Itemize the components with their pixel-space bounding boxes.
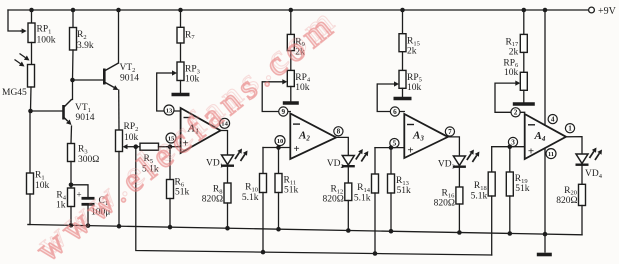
wire signal resistor R18 column bbox=[491, 147, 493, 172]
transistor VT1 bbox=[64, 100, 72, 126]
resistor R6 body bbox=[167, 180, 174, 199]
node R3/R4/C1 junction bbox=[69, 183, 74, 188]
svg-text:10k: 10k bbox=[504, 68, 519, 78]
svg-text:8: 8 bbox=[337, 128, 341, 136]
op-amp A3 bbox=[404, 114, 448, 158]
LED VD1 bbox=[221, 149, 248, 166]
svg-text:+: + bbox=[528, 146, 534, 158]
svg-text:5.1k: 5.1k bbox=[471, 192, 488, 202]
svg-text:+: + bbox=[293, 143, 299, 155]
node R-top rail junction stage 2 bbox=[289, 8, 294, 13]
ground RP6 bbox=[513, 102, 535, 105]
potentiometer RP2 body bbox=[116, 130, 136, 152]
node R-top rail junction stage 3 bbox=[400, 8, 405, 13]
wire rail to RP1 bbox=[31, 10, 33, 23]
op-amp A4 bbox=[525, 114, 566, 159]
op-amp A1 bbox=[181, 108, 221, 153]
svg-text:6: 6 bbox=[393, 108, 397, 116]
node R11 junction bbox=[276, 145, 281, 150]
node VT2 collector rail junction bbox=[116, 8, 121, 13]
svg-text:R10: R10 bbox=[245, 183, 258, 194]
svg-text:R18: R18 bbox=[474, 181, 487, 192]
svg-text:100k: 100k bbox=[37, 36, 56, 46]
wire R16 to ground rail bbox=[458, 204, 460, 233]
potentiometer RP1 body bbox=[28, 23, 35, 43]
node signal junction bbox=[134, 144, 139, 149]
node R19 ground junction bbox=[508, 231, 513, 236]
wire R10 to signal bus bbox=[262, 193, 264, 253]
node R10 signal bus junction bbox=[261, 250, 266, 255]
node RP2 ground junction bbox=[117, 224, 122, 229]
ground main bbox=[537, 253, 552, 257]
svg-text:9: 9 bbox=[282, 108, 286, 116]
svg-text:4: 4 bbox=[551, 116, 555, 124]
ground RP3 bbox=[172, 93, 190, 96]
wire base node to R1 bbox=[29, 111, 31, 173]
svg-text:R1: R1 bbox=[35, 171, 45, 182]
svg-text:R3: R3 bbox=[78, 145, 88, 156]
svg-text:R7: R7 bbox=[185, 30, 195, 41]
wire signal bus rail bbox=[136, 147, 492, 255]
svg-text:10k: 10k bbox=[407, 83, 422, 93]
potentiometer RP4 body bbox=[262, 70, 294, 86]
wire +9V top supply rail bbox=[8, 9, 589, 11]
wire R2 top bbox=[72, 10, 74, 28]
resistor R15 body bbox=[399, 34, 406, 52]
wire VT1 base bbox=[31, 110, 63, 112]
node R16 ground junction bbox=[457, 230, 462, 235]
wire R8 to ground rail bbox=[227, 203, 229, 228]
svg-text:5.1k: 5.1k bbox=[242, 193, 259, 203]
svg-text:820Ω: 820Ω bbox=[202, 195, 223, 205]
node R13 junction bbox=[389, 145, 394, 150]
svg-text:2k: 2k bbox=[407, 47, 417, 57]
svg-text:10: 10 bbox=[277, 138, 284, 145]
svg-text:VT2: VT2 bbox=[120, 63, 136, 74]
wire top resistor to pot stage 2 bbox=[290, 51, 292, 71]
wire VD4 to ballast resistor bbox=[581, 166, 583, 184]
node A4 V+ rail junction bbox=[543, 8, 548, 13]
svg-text:VD1: VD1 bbox=[206, 159, 223, 170]
resistor R7 body bbox=[177, 27, 184, 43]
node R12 ground junction bbox=[346, 228, 351, 233]
svg-text:2: 2 bbox=[514, 109, 518, 117]
svg-text:10k: 10k bbox=[295, 83, 310, 93]
pin 1 output A4 bbox=[565, 124, 574, 133]
wire C1 to ground rail bbox=[87, 206, 89, 226]
wire output A1 to VD1 bbox=[221, 131, 228, 156]
op-amp A2 bbox=[290, 114, 336, 160]
wire pot to ground stage 4 bbox=[523, 90, 525, 104]
resistor R11 body bbox=[275, 174, 282, 193]
pin 14 output A1 bbox=[220, 118, 230, 128]
svg-text:RP1: RP1 bbox=[37, 25, 52, 36]
node R8 ground junction bbox=[225, 226, 230, 231]
watermark www.elecfans.com bbox=[29, 2, 341, 264]
resistor R5 body bbox=[140, 143, 159, 150]
capacitor C1 electrolytic bbox=[76, 190, 94, 205]
node R19 junction bbox=[508, 144, 513, 149]
svg-text:5.1k: 5.1k bbox=[354, 194, 371, 204]
wire R19 to ground rail bbox=[509, 196, 511, 234]
wire R12 to ground rail bbox=[347, 201, 349, 231]
svg-text:51k: 51k bbox=[515, 184, 530, 194]
node R11 ground junction bbox=[276, 227, 281, 232]
resistor R14 body bbox=[372, 174, 379, 193]
svg-text:10k: 10k bbox=[185, 75, 200, 85]
wiper arrow RP1 bbox=[20, 28, 27, 33]
wire rail to top resistor stage 1 bbox=[180, 10, 182, 27]
svg-text:9014: 9014 bbox=[76, 113, 95, 123]
svg-text:10k: 10k bbox=[35, 181, 50, 191]
node VT1 base junction bbox=[28, 109, 33, 114]
wire R18 to signal bus bbox=[491, 196, 493, 255]
wire R11 to ground rail bbox=[278, 193, 280, 230]
wire R6 column bbox=[169, 147, 171, 180]
LED VD3 bbox=[453, 150, 480, 167]
resistor R12 body bbox=[345, 183, 352, 201]
potentiometer RP6 body bbox=[495, 72, 527, 90]
node R14 signal bus junction bbox=[373, 251, 378, 256]
wire R19 column bbox=[509, 147, 511, 172]
resistor R9 body bbox=[287, 34, 294, 50]
svg-text:11: 11 bbox=[548, 151, 554, 158]
node R4 ground junction bbox=[69, 223, 74, 228]
wire R11 column bbox=[278, 148, 280, 174]
potentiometer RP5 body bbox=[377, 70, 406, 88]
wire output A2 to VD2 bbox=[336, 137, 348, 155]
resistor R13 body bbox=[388, 174, 395, 193]
pin 8 output A2 bbox=[334, 127, 343, 136]
resistor R2 body bbox=[70, 28, 77, 51]
node VT1 collector / VT2 base bbox=[70, 78, 75, 83]
pin 15 non-inverting input A1 bbox=[166, 133, 176, 143]
svg-text:820Ω: 820Ω bbox=[434, 199, 455, 209]
wire pot to ground stage 1 bbox=[180, 81, 182, 95]
svg-text:820Ω: 820Ω bbox=[556, 196, 577, 206]
wire output A3 to VD3 bbox=[448, 137, 460, 156]
pin 11 GND A4 bbox=[546, 149, 556, 159]
wire VD1 to ballast resistor bbox=[227, 167, 229, 183]
wire rail to top resistor stage 4 bbox=[523, 10, 525, 34]
wire non-inverting input A4 bbox=[492, 146, 525, 148]
svg-text:VD4: VD4 bbox=[585, 169, 603, 180]
wire ground bus rail bbox=[28, 225, 582, 235]
wire RP1 wiper to +9V rail bbox=[8, 10, 22, 31]
resistor R16 body bbox=[456, 187, 463, 204]
pin 13 inverting input A1 bbox=[164, 105, 174, 115]
svg-text:51k: 51k bbox=[175, 188, 190, 198]
wire rail to top resistor stage 3 bbox=[402, 10, 404, 34]
node R6 junction bbox=[168, 144, 173, 149]
svg-text:51k: 51k bbox=[284, 186, 299, 196]
svg-text:VD2: VD2 bbox=[327, 159, 344, 170]
resistor R18 body bbox=[488, 172, 495, 196]
pin 9 inverting input A2 bbox=[279, 107, 288, 116]
wire signal resistor R10 column bbox=[262, 148, 264, 174]
pin 7 output A3 bbox=[445, 127, 454, 136]
svg-text:+9V: +9V bbox=[598, 6, 617, 17]
wire rail to top resistor stage 2 bbox=[290, 10, 292, 34]
node R-top rail junction stage 1 bbox=[178, 8, 183, 13]
svg-text:820Ω: 820Ω bbox=[322, 195, 343, 205]
svg-text:9014: 9014 bbox=[120, 74, 139, 84]
resistor R20 body bbox=[579, 184, 586, 205]
wire signal resistor R14 column bbox=[374, 148, 376, 174]
node R-top rail junction stage 4 bbox=[522, 8, 527, 13]
wire VD2 to ballast resistor bbox=[347, 167, 349, 183]
resistor R19 body bbox=[506, 172, 513, 196]
wire R14 to signal bus bbox=[374, 193, 376, 254]
photoresistor MG45 body bbox=[28, 65, 35, 88]
LED VD2 bbox=[342, 149, 369, 166]
wire A4 V+ pin 4 from rail bbox=[544, 10, 546, 125]
wire VT2 emitter to RP2 bbox=[118, 90, 120, 130]
wire non-inverting input A2 bbox=[263, 147, 290, 149]
wire R20 to ground rail corner bbox=[581, 206, 583, 235]
svg-text:300Ω: 300Ω bbox=[78, 155, 99, 165]
wire VT2 base bbox=[73, 79, 104, 81]
pin 5 non-inverting input A3 bbox=[390, 139, 399, 148]
wire RP2 wiper junction to R5 bbox=[136, 146, 140, 148]
svg-text:A4: A4 bbox=[534, 130, 546, 143]
LED VD4 bbox=[576, 148, 603, 165]
wire top resistor to pot stage 4 bbox=[523, 52, 525, 72]
svg-text:A2: A2 bbox=[298, 130, 310, 143]
node R13 ground junction bbox=[389, 229, 394, 234]
wire R5 to non-inverting input A1 bbox=[159, 146, 181, 148]
svg-text:A3: A3 bbox=[412, 130, 424, 143]
wire RP1 to MG45 bbox=[31, 43, 33, 65]
svg-text:VD3: VD3 bbox=[438, 160, 455, 171]
svg-text:R14: R14 bbox=[357, 183, 371, 194]
wire non-inverting input A3 bbox=[375, 147, 404, 149]
wire R13 column bbox=[390, 148, 392, 174]
ground RP5 bbox=[394, 97, 412, 100]
pin 4 V+ A4 bbox=[548, 115, 557, 124]
svg-text:RP2: RP2 bbox=[124, 122, 139, 133]
wire pot to ground stage 3 bbox=[402, 88, 404, 98]
resistor R10 body bbox=[260, 174, 267, 193]
wire A4 ground pin 11 bbox=[544, 148, 546, 252]
node R2 rail junction bbox=[71, 8, 76, 13]
wire RP2 to ground rail bbox=[118, 152, 120, 227]
wire R6 to ground rail bbox=[169, 199, 171, 228]
wire R2 to collector node bbox=[72, 50, 75, 80]
transistor VT2 bbox=[104, 63, 118, 90]
pin 6 inverting input A3 bbox=[390, 107, 399, 116]
svg-text:1: 1 bbox=[568, 125, 572, 133]
wire output A4 to VD4 bbox=[566, 137, 582, 154]
potentiometer RP3 body bbox=[157, 62, 184, 81]
wire VT1 collector to R2 node bbox=[72, 80, 73, 100]
resistor R8 body bbox=[224, 183, 231, 203]
svg-text:7: 7 bbox=[448, 128, 452, 136]
svg-text:10k: 10k bbox=[124, 133, 139, 143]
wire pot to ground stage 2 bbox=[290, 87, 292, 104]
ground RP4 bbox=[283, 101, 299, 104]
resistor R17 body bbox=[520, 34, 527, 52]
wire top resistor to pot stage 3 bbox=[402, 52, 404, 71]
resistor R3 body bbox=[68, 144, 75, 162]
wire RP5 wiper to inverting input A3 bbox=[377, 84, 404, 112]
pin 10 non-inverting input A2 bbox=[275, 136, 285, 146]
terminal +9V bbox=[589, 6, 617, 17]
svg-text:3.9k: 3.9k bbox=[77, 41, 94, 51]
node RP1 top rail junction bbox=[29, 8, 34, 13]
svg-text:2k: 2k bbox=[509, 47, 519, 57]
wire R13 to ground rail bbox=[390, 193, 392, 231]
wire top resistor to pot stage 1 bbox=[180, 43, 182, 62]
wire RP4 wiper to inverting input A2 bbox=[262, 82, 290, 112]
wire node to R4 bbox=[70, 185, 72, 188]
wire R4 to ground rail bbox=[70, 207, 72, 226]
wire VT2 collector to rail bbox=[118, 10, 120, 63]
svg-text:3: 3 bbox=[511, 138, 515, 146]
wire node to C1 bbox=[71, 185, 88, 197]
svg-text:+: + bbox=[407, 145, 413, 157]
wire R3 to R4/C1 node bbox=[70, 162, 72, 185]
wire VD3 to ballast resistor bbox=[458, 168, 460, 187]
resistor R4 body bbox=[68, 188, 75, 207]
svg-text:51k: 51k bbox=[397, 186, 412, 196]
svg-text:MG45: MG45 bbox=[2, 88, 27, 98]
svg-text:5: 5 bbox=[393, 140, 397, 148]
light arrows into MG45 bbox=[15, 54, 30, 67]
wire VT1 emitter to R3 bbox=[70, 126, 73, 144]
pin 3 non-inverting input A4 bbox=[508, 137, 517, 146]
wire MG45 to base node bbox=[30, 87, 33, 111]
wire RP3 wiper to inverting input A1 bbox=[157, 73, 181, 111]
node C1 ground junction bbox=[86, 223, 91, 228]
wire RP6 wiper to inverting input A4 bbox=[495, 83, 525, 112]
pin 2 inverting input A4 bbox=[511, 108, 520, 117]
wire R1 to ground rail bbox=[28, 194, 30, 225]
svg-text:R2: R2 bbox=[77, 30, 87, 41]
resistor R1 body bbox=[27, 173, 34, 194]
svg-text:13: 13 bbox=[166, 107, 173, 114]
node R6 ground junction bbox=[168, 225, 173, 230]
node A4 ground rail junction bbox=[543, 232, 548, 237]
